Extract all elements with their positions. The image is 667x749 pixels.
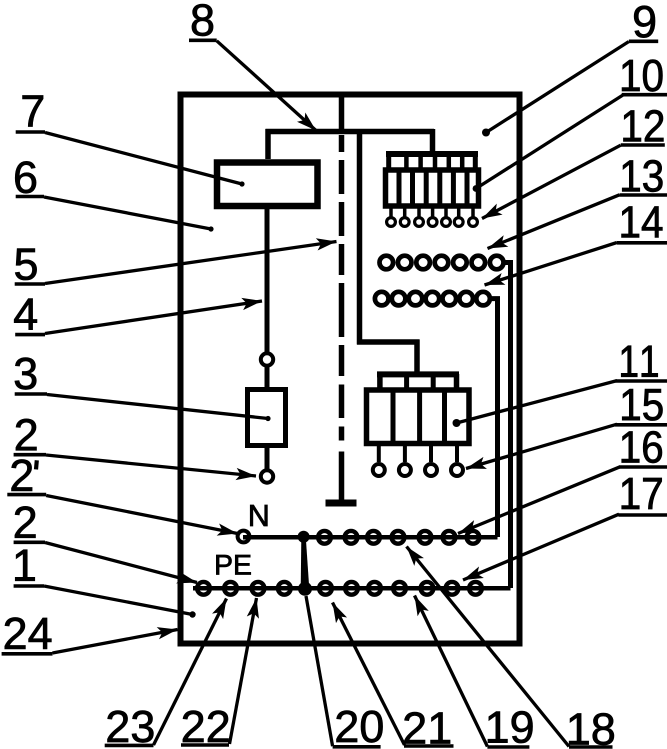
- terminal circle above box 3: [261, 353, 273, 365]
- callout 11: [453, 346, 667, 427]
- callout 3: [15, 358, 271, 422]
- callout 20: [306, 596, 383, 747]
- terminal row 14: [375, 292, 490, 306]
- callout 12: [482, 110, 665, 219]
- wire: top feed bus: [266, 129, 435, 135]
- N bus junction dot: [298, 531, 310, 543]
- PE bus line: [193, 586, 511, 591]
- terminal circle 2: [261, 470, 273, 482]
- callout 17: [463, 478, 667, 580]
- wire: horizontal jog to group 11: [357, 339, 420, 345]
- enclosure outline (cabinet): [181, 95, 520, 644]
- N bus first terminal circle 2': [238, 531, 250, 543]
- breaker group 10: handle bar: [386, 154, 478, 170]
- breaker group 11: terminal stems: [379, 444, 457, 463]
- PE bus terminal rings right: [319, 582, 482, 595]
- PE bus junction dot: [298, 582, 312, 596]
- dashed partition line 5: [339, 95, 345, 500]
- callout 19: [415, 596, 533, 748]
- callout 8: [189, 4, 316, 130]
- callout 16: [458, 431, 667, 533]
- wire: box 3 to terminal circle 2: [265, 446, 270, 470]
- ground bar of dashed line: [326, 500, 357, 507]
- callout 7: [16, 96, 245, 187]
- callout 4: [14, 299, 262, 335]
- breaker group 10: body: [386, 170, 479, 206]
- callout 5: [15, 242, 337, 285]
- breaker group 10: terminal circles: [387, 218, 478, 227]
- callout 2_l: [14, 506, 197, 582]
- wire: row 13 to PE bus right riser: [503, 263, 511, 589]
- wire: drop to breaker group 10: [430, 129, 436, 154]
- callout 2_u: [14, 419, 256, 476]
- callout 10: [473, 60, 667, 192]
- callout 22: [181, 598, 257, 745]
- N bus terminal rings: [318, 531, 479, 544]
- N bus line: [243, 535, 498, 540]
- breaker group 11: terminal circles: [373, 464, 463, 476]
- callout 23: [105, 599, 227, 746]
- callout 2_p: [7, 459, 237, 533]
- callout 14: [485, 206, 667, 285]
- breaker group 11: handle bar: [377, 374, 459, 390]
- wire: drop into group 11: [414, 340, 420, 375]
- box 7 (meter): [217, 163, 318, 207]
- box 3 (device): [248, 390, 286, 446]
- breaker group 11: body: [367, 390, 470, 444]
- callout 18: [407, 547, 614, 748]
- wire: box 7 to terminal circle: [265, 206, 270, 352]
- callout 24: [2, 617, 178, 653]
- breaker group 10: terminal stems: [391, 206, 473, 217]
- PE bus terminal rings left: [197, 582, 291, 595]
- label N: [250, 505, 267, 526]
- callout 9: [482, 6, 658, 137]
- wire: circle to box 3: [265, 366, 270, 390]
- callout 6: [15, 161, 213, 231]
- wire: riser from box 7 top to feed bus: [265, 129, 271, 159]
- callout 13: [488, 160, 667, 249]
- callout 21: [333, 603, 454, 747]
- callout 1: [14, 550, 196, 618]
- label PE: [216, 555, 250, 575]
- wire: row 14 to N bus right riser: [489, 299, 498, 537]
- N-PE bonding link: [301, 539, 310, 589]
- callout 15: [466, 389, 667, 468]
- terminal row 13: [380, 256, 504, 270]
- wire: branch drop toward breaker group 11: [357, 129, 363, 345]
